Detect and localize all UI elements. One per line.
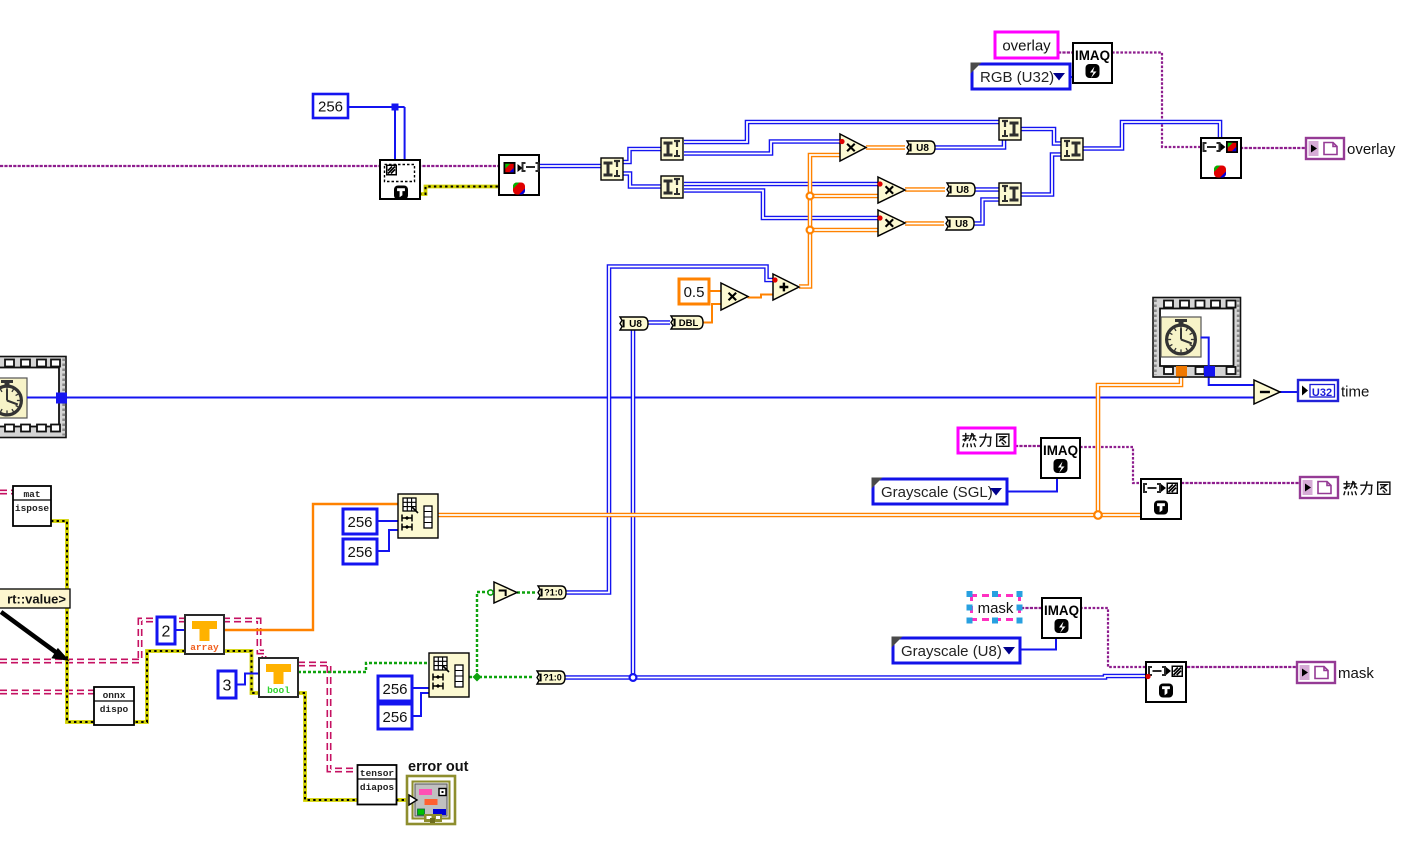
coercion dot red top bbox=[877, 215, 882, 220]
junction green diamond bbox=[473, 673, 482, 682]
dropdown RGB U32 bbox=[971, 63, 1071, 90]
wire splitC to multiply2 bbox=[684, 182, 878, 187]
constant 256 c3 bbox=[378, 676, 412, 701]
coercion dot red bbox=[877, 215, 882, 220]
U8 coercion flag 2 bbox=[947, 183, 975, 196]
wire multiply1 to U8-1 bbox=[866, 145, 905, 150]
not gate bbox=[494, 582, 517, 603]
svg-text:mat: mat bbox=[23, 489, 40, 500]
tensor dispose subVI bbox=[358, 765, 397, 805]
svg-text:256: 256 bbox=[347, 514, 372, 531]
dropdown Grayscale U8 bbox=[892, 637, 1021, 664]
split number A bbox=[601, 158, 623, 180]
wire select lower branch up to U8 flag bbox=[631, 330, 636, 678]
label heatmap pink bbox=[958, 428, 1015, 453]
svg-text:overlay: overlay bbox=[1002, 38, 1051, 55]
wire blue array icon2 to splitA bbox=[539, 164, 601, 169]
svg-text:U8: U8 bbox=[629, 319, 642, 330]
wire Grayscale U8 dropdown to IMAQ create 3 bbox=[1020, 637, 1056, 650]
join number F bbox=[999, 183, 1021, 205]
svg-text:3: 3 bbox=[223, 677, 232, 694]
IMAQ create mask bbox=[1042, 598, 1081, 638]
svg-text:RGB (U32): RGB (U32) bbox=[980, 69, 1054, 86]
svg-text:U8: U8 bbox=[955, 219, 968, 230]
indicator mask bbox=[1297, 662, 1374, 683]
join number E bbox=[1061, 138, 1083, 160]
wire RGB U32 dropdown to IMAQ create bbox=[1070, 76, 1074, 78]
svg-text:ispose: ispose bbox=[15, 503, 50, 514]
wire clock1 to tunnel inside frame bbox=[27, 397, 57, 399]
wire U8-3 to joinF bbox=[974, 200, 999, 224]
wire select lower long to ArrayToImage 3 bbox=[565, 676, 1146, 678]
coercion dot red bbox=[1145, 674, 1150, 679]
svg-text:2: 2 bbox=[162, 623, 171, 640]
wire IMAQ create overlay to ArrayToImage bbox=[1112, 53, 1201, 148]
subtract node bbox=[1254, 380, 1280, 404]
wire boolean branch to NOT bbox=[477, 592, 492, 677]
wire error cluster tensor-dispose to error out bbox=[396, 798, 409, 802]
ArrayToImage color overlay bbox=[1201, 138, 1241, 178]
wire onnx session chain left to array node bbox=[0, 620, 264, 661]
wire multiply3 to U8-3 bbox=[905, 221, 944, 226]
svg-text:IMAQ: IMAQ bbox=[1043, 442, 1078, 458]
error out cluster indicator bbox=[407, 776, 455, 824]
wire splitB to joinD top bbox=[684, 122, 999, 142]
wire ArrayToImage 2 to heatmap indicator bbox=[1181, 482, 1300, 484]
svg-text:dispo: dispo bbox=[100, 704, 129, 715]
wire boolean NOT out to select upper bbox=[517, 591, 536, 593]
multiply scalar MS bbox=[721, 283, 748, 310]
wire 256 c1 to reshape1 bbox=[377, 520, 398, 522]
wire orange array to reshape1 bbox=[224, 504, 398, 630]
wire boolean array bool-node to reshape2 bbox=[298, 663, 429, 672]
svg-text:?1:0: ?1:0 bbox=[544, 588, 563, 598]
split number C bbox=[661, 176, 683, 198]
color image to array icon U2 bbox=[499, 155, 539, 195]
wire clock2 to frame tunnel bbox=[1201, 338, 1209, 367]
wire ArrayToImage to overlay indicator bbox=[1240, 147, 1306, 149]
junction orange long wire bbox=[1094, 511, 1102, 519]
split number B bbox=[661, 138, 683, 160]
wire IMAQ create 2 to ArrayToImage 2 bbox=[1080, 447, 1141, 483]
frame2 blue tunnel bbox=[1204, 366, 1215, 377]
U8 coercion flag 3 bbox=[946, 217, 974, 230]
wire IMAQ create 3 to ArrayToImage 3 bbox=[1080, 608, 1146, 667]
svg-text:diapos: diapos bbox=[360, 782, 395, 793]
wire chain bool to tensor dispose bbox=[298, 664, 358, 770]
clock icon 2 bbox=[1161, 317, 1201, 357]
wire 256 constant to image create icon bbox=[348, 107, 405, 160]
junction orange riser 2 bbox=[807, 227, 814, 234]
svg-text:IMAQ: IMAQ bbox=[1044, 602, 1079, 618]
svg-text:mask: mask bbox=[978, 600, 1014, 617]
wire joinD to joinE bbox=[1021, 129, 1061, 144]
wire mask label to IMAQ create 3 bbox=[1021, 607, 1042, 609]
indicator overlay bbox=[1306, 138, 1396, 159]
svg-text:U8: U8 bbox=[956, 185, 969, 196]
wire Grayscale SGL dropdown to IMAQ create 2 bbox=[1007, 477, 1057, 492]
wire constant 3 to bool node bbox=[236, 674, 259, 685]
svg-text:Grayscale (U8): Grayscale (U8) bbox=[901, 643, 1002, 660]
reshape array 1 bbox=[398, 494, 438, 538]
multiply M2 bbox=[878, 177, 905, 203]
constant 256 c2 bbox=[343, 539, 377, 564]
junction orange riser 1 bbox=[807, 193, 814, 200]
error out wire arrowhead bbox=[409, 795, 417, 805]
multiply M1 bbox=[840, 134, 866, 161]
dropdown Grayscale SGL bbox=[872, 478, 1008, 505]
wire orange branch multiply3 bbox=[810, 228, 878, 233]
svg-text:overlay: overlay bbox=[1347, 141, 1396, 158]
wire clock2 to tunnel inside frame redraw bbox=[1201, 338, 1209, 367]
wire chain to mat dispose bbox=[0, 490, 14, 495]
svg-text:array: array bbox=[190, 642, 219, 653]
U8 flag bottom bbox=[620, 317, 648, 330]
wire splitA to splitB bbox=[622, 149, 661, 162]
coercion dot red top bbox=[839, 139, 844, 144]
wire U8-2 to joinF bbox=[975, 187, 999, 192]
wire tick count long to subtract bbox=[66, 397, 1254, 399]
indicator U32 time bbox=[1298, 380, 1369, 401]
svg-text:bool: bool bbox=[267, 685, 290, 696]
wire constant 2 to array node bbox=[174, 629, 185, 631]
svg-text:rt::value>: rt::value> bbox=[7, 592, 66, 607]
reshape array 2 bbox=[429, 653, 469, 697]
coercion dot red bbox=[839, 139, 844, 144]
DBL convert flag bbox=[671, 316, 703, 329]
svg-text:256: 256 bbox=[382, 709, 407, 726]
constant 3 bbox=[218, 671, 236, 698]
svg-text:Grayscale (SGL): Grayscale (SGL) bbox=[881, 484, 993, 501]
IMAQ create overlay bbox=[1073, 43, 1112, 83]
svg-text:256: 256 bbox=[382, 681, 407, 698]
wire boolean reshape2 to select bbox=[469, 676, 534, 678]
svg-text:?1:0: ?1:0 bbox=[543, 673, 562, 683]
svg-text:IMAQ: IMAQ bbox=[1075, 47, 1110, 63]
wire overlay label to IMAQ create bbox=[1058, 51, 1073, 53]
constant 256 top bbox=[313, 94, 348, 118]
wire ArrayToImage 3 to mask indicator bbox=[1187, 666, 1297, 668]
coercion dot red bbox=[772, 277, 777, 282]
indicator heatmap bbox=[1300, 477, 1338, 498]
black arrow pointer bbox=[1, 612, 67, 660]
wire frame tunnel to subtract bbox=[1209, 375, 1254, 385]
coercion dot red top bbox=[1145, 674, 1150, 679]
wire U8-1 to joinD bbox=[935, 140, 1004, 148]
U8 coercion flag 1 bbox=[907, 141, 935, 154]
add node bbox=[773, 274, 799, 300]
wire chain to onnx dispose bbox=[0, 690, 94, 695]
wire splitB to multiply1 bbox=[684, 142, 840, 154]
wire multiply2 to U8-2 bbox=[905, 187, 945, 192]
label mask selected bbox=[967, 591, 1023, 624]
junction 256 wire bbox=[392, 104, 399, 111]
wire error cluster mat-dispose to onnx-dispose to tensor-dispose bbox=[51, 521, 358, 800]
wire orange branch multiply2 bbox=[810, 194, 878, 199]
wire 256 c4 to reshape2 bbox=[412, 693, 429, 716]
image create icon U1 bbox=[380, 160, 420, 200]
svg-text:error out: error out bbox=[408, 759, 469, 775]
frame1 blue tunnel bbox=[56, 393, 67, 404]
svg-text:onnx: onnx bbox=[103, 690, 126, 701]
wire joinE to ArrayToImage color bbox=[1082, 122, 1220, 149]
clock icon 1 bbox=[0, 378, 27, 418]
not gate input circle bbox=[488, 590, 493, 595]
wire DBL to multiply scalar bbox=[702, 304, 722, 323]
multiply M3 bbox=[878, 210, 905, 236]
wire 256 c2 to reshape1 bbox=[377, 530, 398, 551]
svg-text:256: 256 bbox=[318, 98, 343, 115]
wire 0.5 to multiply scalar bbox=[709, 290, 722, 292]
frame2 orange tunnel bbox=[1176, 366, 1187, 377]
label rt-value bbox=[0, 589, 70, 608]
label overlay pink bbox=[995, 32, 1058, 58]
coercion dot red bbox=[877, 181, 882, 186]
wire orange add output riser to multiplies bbox=[799, 155, 840, 287]
film frame 1 wait-ms bbox=[0, 357, 66, 438]
select ?1:0 upper bbox=[538, 586, 566, 599]
svg-text:mask: mask bbox=[1338, 665, 1374, 682]
wire splitC to multiply3 bbox=[684, 191, 878, 219]
wire reshape1 long orange array bbox=[438, 513, 1141, 518]
svg-text:U8: U8 bbox=[916, 143, 929, 154]
mat dispose subVI bbox=[13, 486, 51, 526]
wire splitA to splitC bbox=[622, 174, 661, 187]
film frame 2 tick count bbox=[1153, 298, 1241, 378]
junction blue select lower bbox=[630, 674, 637, 681]
svg-text:256: 256 bbox=[347, 544, 372, 561]
join number D bbox=[999, 118, 1021, 140]
coercion dot red top bbox=[772, 277, 777, 282]
wire U8 flag to DBL flag bbox=[649, 320, 671, 325]
svg-text:0.5: 0.5 bbox=[684, 284, 705, 301]
wire image-ref magenta main row bbox=[0, 165, 500, 167]
to-bool T icon bbox=[259, 658, 298, 697]
svg-text:DBL: DBL bbox=[679, 318, 699, 329]
constant 2 bbox=[157, 617, 175, 644]
IMAQ create heatmap bbox=[1041, 438, 1080, 478]
constant 256 c4 bbox=[378, 704, 412, 729]
wire heatmap label to IMAQ create 2 bbox=[1015, 445, 1041, 447]
onnx dispose subVI bbox=[94, 687, 134, 725]
constant 0.5 bbox=[679, 279, 709, 304]
wire joinF to joinE bbox=[1021, 155, 1061, 195]
select ?1:0 lower bbox=[537, 671, 565, 684]
wire 256 c3 to reshape2 bbox=[412, 687, 429, 689]
constant 256 c1 bbox=[343, 509, 377, 534]
ArrayToImage heatmap bbox=[1141, 479, 1181, 519]
wire subtract to U32 time indicator bbox=[1280, 391, 1298, 393]
ArrayToImage mask bbox=[1146, 662, 1186, 702]
wire orange branch to time frame tunnel bbox=[1098, 372, 1181, 515]
to-array T icon bbox=[185, 615, 224, 654]
wire multiply scalar to add bbox=[748, 295, 774, 298]
coercion dot red top bbox=[877, 181, 882, 186]
svg-text:time: time bbox=[1341, 384, 1369, 401]
svg-text:tensor: tensor bbox=[360, 768, 395, 779]
wire select upper to add coerced bbox=[565, 267, 774, 593]
wire error cluster icon1 to icon2 bbox=[419, 187, 499, 195]
